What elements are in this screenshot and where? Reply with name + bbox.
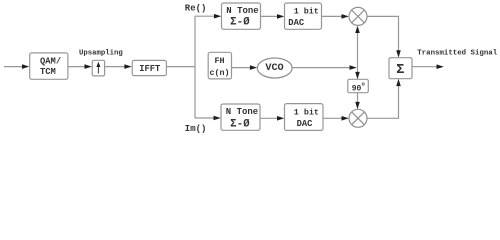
svg-text:Im(): Im() bbox=[185, 124, 207, 134]
wire top mixer to summer top bbox=[367, 16, 399, 52]
arrowhead up into summer bottom bbox=[396, 79, 401, 86]
svg-text:N Tone: N Tone bbox=[226, 107, 258, 117]
arrowhead into bottom N Tone bbox=[214, 116, 221, 121]
wire bottom mixer to summer bottom bbox=[367, 84, 399, 118]
box IFFT bbox=[132, 60, 166, 75]
wire FH to VCO bbox=[232, 67, 252, 69]
arrowhead VCO output into LO junction bbox=[350, 65, 357, 70]
arrowhead up into top mixer bbox=[355, 26, 360, 33]
wire junction vertical Re/Im split bbox=[194, 16, 196, 118]
mixer bottom (circle with X) bbox=[349, 109, 367, 127]
svg-text:IFFT: IFFT bbox=[139, 64, 161, 74]
svg-text:Re(): Re() bbox=[185, 3, 207, 13]
box FH c(n) bbox=[208, 52, 231, 79]
wire input to QAM/TCM bbox=[4, 66, 24, 68]
arrowhead into top N Tone bbox=[214, 14, 221, 19]
svg-text:FH: FH bbox=[214, 56, 224, 66]
arrowhead down into bottom mixer bbox=[355, 102, 360, 109]
svg-text:Σ-Ø: Σ-Ø bbox=[230, 16, 250, 28]
arrowhead into QAM/TCM bbox=[22, 64, 29, 69]
arrowhead into Upsampling bbox=[85, 64, 92, 69]
svg-text:DAC: DAC bbox=[297, 119, 314, 129]
box 1 bit DAC (bottom) bbox=[285, 104, 324, 131]
svg-text:N Tone: N Tone bbox=[226, 6, 258, 16]
svg-text:1 bit: 1 bit bbox=[294, 7, 319, 17]
wire junction to top N Tone bbox=[195, 15, 216, 17]
arrowhead transmitted signal output bbox=[437, 64, 444, 69]
svg-text:TCM: TCM bbox=[40, 67, 56, 77]
box 1 bit DAC (top) bbox=[285, 3, 322, 29]
arrowhead into bottom mixer left bbox=[342, 116, 349, 121]
wire bottom DAC to bottom mixer bbox=[323, 117, 344, 119]
svg-text:1 bit: 1 bit bbox=[294, 107, 319, 117]
arrowhead into top mixer bbox=[342, 14, 349, 19]
wire 90 deg box to bottom mixer bbox=[357, 93, 359, 104]
arrowhead into bottom DAC bbox=[277, 116, 284, 121]
arrowhead into summer top bbox=[396, 50, 401, 57]
svg-text:c(n): c(n) bbox=[209, 68, 229, 78]
svg-text:QAM/: QAM/ bbox=[40, 56, 61, 66]
wire Upsampling to IFFT bbox=[105, 66, 127, 68]
arrowhead into VCO bbox=[250, 65, 257, 70]
svg-text:90: 90 bbox=[352, 85, 362, 94]
wire LO junction down to 90 deg box bbox=[357, 68, 359, 74]
box QAM/TCM bbox=[30, 53, 68, 79]
svg-text:VCO: VCO bbox=[265, 63, 283, 74]
wire top N Tone to top DAC bbox=[261, 15, 280, 17]
arrowhead into IFFT bbox=[124, 64, 131, 69]
svg-text:Transmitted Signal: Transmitted Signal bbox=[417, 49, 497, 57]
wire junction to bottom N Tone bbox=[195, 117, 216, 119]
wire bottom N Tone to bottom DAC bbox=[260, 117, 279, 119]
wire IFFT to junction bbox=[167, 66, 196, 68]
wire QAM/TCM to Upsampling bbox=[68, 66, 86, 68]
wire summer output bbox=[412, 66, 438, 68]
wire LO junction up to top mixer bbox=[357, 31, 359, 68]
box N Tone Sigma-Phase (top) bbox=[222, 3, 261, 29]
wire VCO to LO junction bbox=[292, 67, 351, 69]
box summer Sigma bbox=[389, 58, 412, 79]
svg-text:DAC: DAC bbox=[288, 18, 305, 28]
svg-text:Σ-Ø: Σ-Ø bbox=[230, 118, 250, 130]
wire top DAC to top mixer bbox=[322, 15, 344, 17]
svg-text:Upsampling: Upsampling bbox=[79, 50, 123, 58]
svg-text:Σ: Σ bbox=[396, 63, 404, 78]
box Upsampling with up-arrow symbol bbox=[92, 60, 104, 76]
box N Tone Sigma-Phase (bottom) bbox=[221, 104, 260, 130]
mixer top (circle with X) bbox=[349, 7, 367, 25]
VCO ellipse bbox=[257, 58, 292, 78]
arrowhead down into 90 deg box bbox=[355, 72, 360, 79]
box 90 degree phase shift bbox=[348, 79, 369, 93]
arrowhead into top DAC bbox=[277, 14, 284, 19]
